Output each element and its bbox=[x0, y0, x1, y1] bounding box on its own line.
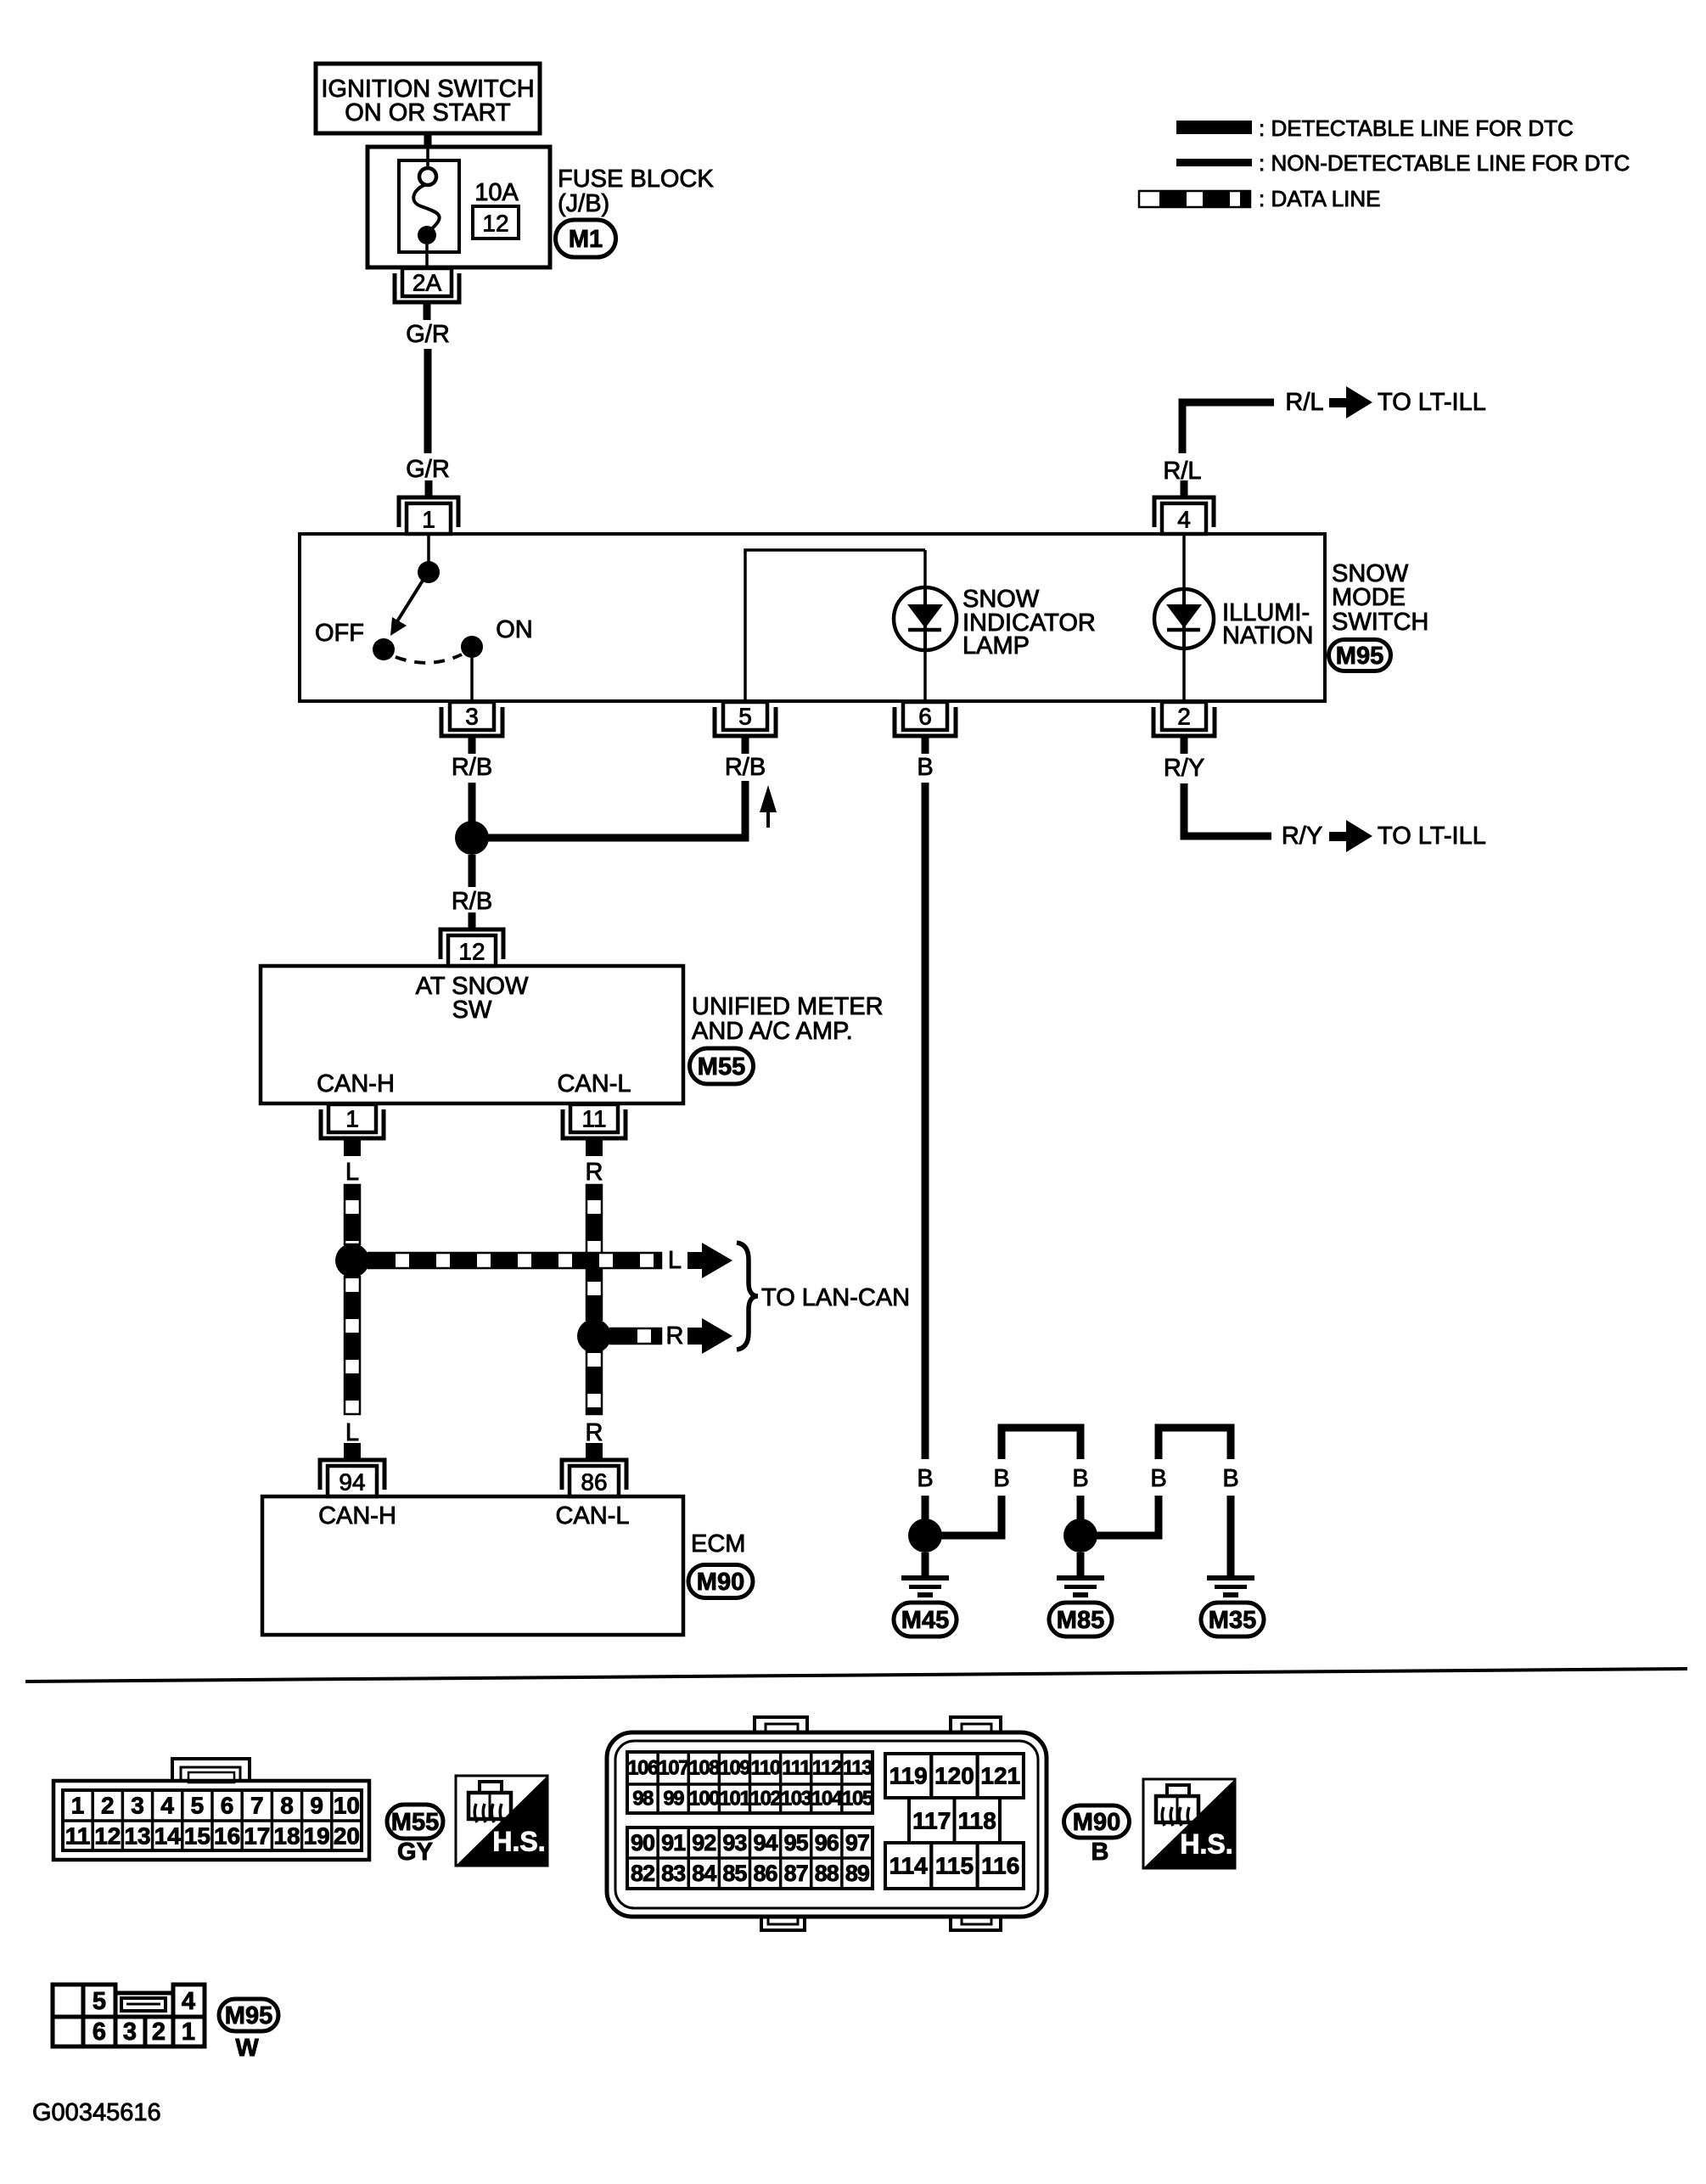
svg-text:M90: M90 bbox=[1073, 1809, 1120, 1836]
svg-text:3: 3 bbox=[123, 2018, 137, 2046]
svg-text:M95: M95 bbox=[225, 2002, 272, 2030]
wire R/B junction to pin 5 bbox=[487, 781, 745, 838]
svg-text:M55: M55 bbox=[698, 1053, 745, 1081]
label snow mode switch bbox=[1332, 560, 1428, 636]
connector M55 oval bottom bbox=[387, 1805, 443, 1839]
svg-text:6: 6 bbox=[918, 704, 932, 730]
legend data line sample bbox=[1139, 191, 1250, 207]
svg-text:GY: GY bbox=[397, 1839, 433, 1866]
ECM box bbox=[262, 1496, 683, 1635]
svg-text:113: 113 bbox=[843, 1757, 873, 1780]
svg-text:G/R: G/R bbox=[406, 321, 450, 348]
svg-text:106: 106 bbox=[627, 1757, 659, 1780]
switch pivot from pin 1 bbox=[418, 536, 440, 583]
svg-text:R/Y: R/Y bbox=[1282, 823, 1322, 850]
ground symbol M35 bbox=[1207, 1575, 1254, 1597]
svg-text:2: 2 bbox=[1177, 704, 1191, 730]
svg-text:CAN-H: CAN-H bbox=[318, 1502, 396, 1530]
svg-text:TO LT-ILL: TO LT-ILL bbox=[1378, 823, 1486, 850]
wire ON contact to pin 3 bbox=[470, 647, 474, 702]
ground symbol M45 bbox=[901, 1575, 949, 1597]
svg-text:ECM: ECM bbox=[691, 1530, 745, 1558]
svg-text:90: 90 bbox=[631, 1830, 654, 1856]
label OFF bbox=[315, 620, 364, 647]
wire ignition to fuse block bbox=[424, 133, 432, 148]
switch ON contact bbox=[461, 636, 483, 658]
wire label R/B pin 5 bbox=[725, 754, 766, 781]
svg-text:93: 93 bbox=[722, 1830, 747, 1856]
svg-text:108: 108 bbox=[689, 1757, 721, 1780]
svg-text:9: 9 bbox=[310, 1793, 323, 1819]
svg-text:117: 117 bbox=[912, 1808, 951, 1834]
svg-text:1: 1 bbox=[345, 1106, 359, 1132]
connector pin 6 bbox=[895, 702, 956, 754]
data wire CAN-L upper bbox=[586, 1185, 602, 1320]
svg-text:17: 17 bbox=[244, 1823, 270, 1850]
wire B pin 6 down bbox=[922, 783, 929, 1459]
svg-text:101: 101 bbox=[720, 1788, 751, 1811]
connector pin 2A bbox=[395, 268, 459, 320]
signal direction arrow up bbox=[760, 785, 777, 828]
svg-text:121: 121 bbox=[980, 1763, 1020, 1789]
svg-text:109: 109 bbox=[720, 1757, 751, 1780]
data wire L to LAN-CAN bbox=[368, 1253, 661, 1268]
svg-text:11: 11 bbox=[65, 1823, 91, 1850]
svg-text:MODE: MODE bbox=[1332, 584, 1406, 611]
svg-text:88: 88 bbox=[815, 1861, 839, 1886]
brace TO LAN-CAN bbox=[737, 1243, 758, 1350]
wire label R upper bbox=[586, 1159, 603, 1186]
junction ground M45 bbox=[908, 1519, 942, 1552]
label illumination bbox=[1222, 599, 1313, 649]
wire label B ground 1 bbox=[917, 1465, 933, 1492]
svg-text:16: 16 bbox=[214, 1823, 240, 1850]
svg-text:R/B: R/B bbox=[725, 754, 766, 781]
svg-text:118: 118 bbox=[958, 1808, 996, 1834]
svg-text:M35: M35 bbox=[1209, 1607, 1256, 1634]
label ECM bbox=[691, 1530, 745, 1558]
connector M95 oval bottom bbox=[219, 1999, 278, 2031]
connector pin 1 meter CAN-H bbox=[321, 1104, 384, 1156]
svg-text:7: 7 bbox=[250, 1793, 264, 1819]
wire label R/L right bbox=[1285, 389, 1323, 416]
switch OFF contact bbox=[373, 638, 395, 660]
svg-text:107: 107 bbox=[658, 1757, 689, 1780]
wire R/B pin3 down to junction bbox=[469, 783, 476, 824]
svg-text:8: 8 bbox=[280, 1793, 294, 1819]
legend data line text bbox=[1259, 186, 1381, 211]
junction ground M85 bbox=[1063, 1519, 1097, 1552]
label AT SNOW SW bbox=[416, 973, 529, 1024]
svg-text:NATION: NATION bbox=[1222, 622, 1313, 649]
label TO LT-ILL lower bbox=[1378, 823, 1486, 850]
svg-text:120: 120 bbox=[934, 1763, 974, 1789]
svg-text:R: R bbox=[666, 1322, 684, 1350]
wire to ground M35 bbox=[1227, 1496, 1235, 1575]
wire label R/L at pin 4 bbox=[1163, 458, 1201, 485]
H.S. logo left bbox=[456, 1776, 547, 1866]
wire label L upper bbox=[345, 1159, 359, 1186]
svg-text:114: 114 bbox=[889, 1853, 929, 1879]
svg-text:119: 119 bbox=[889, 1763, 928, 1789]
svg-text:15: 15 bbox=[184, 1823, 210, 1850]
svg-text:85: 85 bbox=[722, 1861, 747, 1886]
wire bridge leg 2 to junction M85 bbox=[1084, 1496, 1159, 1536]
svg-text:B: B bbox=[993, 1465, 1009, 1492]
svg-text:14: 14 bbox=[154, 1823, 182, 1850]
connector pin 4 snow mode switch bbox=[1154, 480, 1214, 534]
wire label B ground 3 bbox=[1072, 1465, 1088, 1492]
wire label R branch bbox=[666, 1322, 684, 1350]
svg-text:B: B bbox=[1092, 1839, 1109, 1866]
svg-text:1: 1 bbox=[422, 507, 435, 533]
svg-text:3: 3 bbox=[131, 1793, 144, 1819]
svg-text:5: 5 bbox=[93, 1988, 106, 2015]
connector M95 oval at switch bbox=[1329, 640, 1391, 671]
wire R/B junction down bbox=[469, 855, 476, 887]
legend detectable line text bbox=[1259, 115, 1574, 141]
connector pin 12 meter bbox=[441, 912, 503, 966]
svg-text:103: 103 bbox=[781, 1788, 812, 1811]
svg-text:94: 94 bbox=[339, 1469, 365, 1496]
ground symbol M85 bbox=[1057, 1575, 1104, 1597]
connector pin 86 ECM CAN-L bbox=[562, 1443, 626, 1496]
junction CAN-L bbox=[577, 1319, 611, 1353]
data wire CAN-L lower bbox=[586, 1351, 602, 1414]
svg-text:FUSE BLOCK: FUSE BLOCK bbox=[558, 166, 714, 193]
svg-text:R/Y: R/Y bbox=[1164, 755, 1204, 782]
svg-text:B: B bbox=[917, 1465, 933, 1492]
wire bridge leg to junction M85 bbox=[1077, 1496, 1085, 1536]
connector pin 11 meter CAN-L bbox=[563, 1104, 626, 1156]
svg-text:5: 5 bbox=[738, 704, 752, 730]
svg-text:M55: M55 bbox=[391, 1809, 439, 1836]
illumination LED bbox=[1154, 589, 1214, 648]
data wire CAN-H lower bbox=[345, 1277, 360, 1414]
svg-text:96: 96 bbox=[815, 1830, 839, 1856]
connector M90 oval bottom bbox=[1064, 1805, 1130, 1838]
unified meter and ac amp box bbox=[261, 966, 683, 1103]
label CAN-L ECM bbox=[555, 1502, 629, 1530]
svg-text:100: 100 bbox=[689, 1788, 721, 1811]
svg-text:4: 4 bbox=[182, 1988, 195, 2015]
svg-text:W: W bbox=[235, 2035, 259, 2062]
ground M85 oval bbox=[1049, 1603, 1112, 1637]
svg-text:M1: M1 bbox=[569, 226, 603, 253]
svg-text:ON OR START: ON OR START bbox=[345, 99, 511, 126]
wire label R/B pin 3 bbox=[452, 754, 492, 781]
svg-text:12: 12 bbox=[94, 1823, 121, 1850]
svg-text:B: B bbox=[1072, 1465, 1088, 1492]
svg-text:104: 104 bbox=[811, 1788, 844, 1811]
svg-text:110: 110 bbox=[750, 1757, 780, 1780]
svg-text:UNIFIED METER: UNIFIED METER bbox=[692, 993, 884, 1020]
wire label B ground 4 bbox=[1150, 1465, 1166, 1492]
svg-text:AND A/C AMP.: AND A/C AMP. bbox=[692, 1018, 853, 1045]
wire R/Y corner to LT-ILL bbox=[1184, 783, 1271, 836]
connector M90 oval at ECM bbox=[688, 1565, 753, 1598]
svg-text:R: R bbox=[586, 1419, 603, 1446]
wire label R lower bbox=[586, 1419, 603, 1446]
svg-text:98: 98 bbox=[632, 1788, 654, 1811]
svg-text:10A: 10A bbox=[474, 179, 519, 206]
label ON bbox=[496, 616, 533, 643]
svg-text:OFF: OFF bbox=[315, 620, 364, 647]
fuse 10A 12 bbox=[413, 147, 439, 267]
svg-text:20: 20 bbox=[334, 1823, 360, 1850]
data wire R to LAN-CAN bbox=[610, 1328, 661, 1344]
ignition switch power source box bbox=[316, 64, 540, 133]
connector pin 2 bbox=[1153, 702, 1215, 754]
svg-text:L: L bbox=[668, 1247, 682, 1274]
wire B to junction M45 bbox=[922, 1496, 929, 1536]
svg-text:L: L bbox=[345, 1159, 359, 1186]
svg-text:B: B bbox=[1222, 1465, 1238, 1492]
svg-text:5: 5 bbox=[191, 1793, 205, 1819]
label TO LAN-CAN bbox=[761, 1284, 910, 1311]
svg-text:2A: 2A bbox=[412, 270, 442, 296]
connector face M90 bbox=[607, 1717, 1047, 1930]
svg-text:L: L bbox=[345, 1419, 359, 1446]
label W color bbox=[235, 2035, 259, 2062]
junction CAN-H bbox=[335, 1244, 369, 1277]
svg-text:H.S.: H.S. bbox=[492, 1826, 545, 1856]
svg-text:SW: SW bbox=[452, 997, 492, 1024]
svg-text:SWITCH: SWITCH bbox=[1332, 609, 1428, 636]
label CAN-H meter bbox=[317, 1070, 395, 1098]
svg-text:97: 97 bbox=[845, 1830, 869, 1856]
svg-text:LAMP: LAMP bbox=[962, 632, 1030, 660]
svg-text:4: 4 bbox=[160, 1793, 174, 1819]
legend detectable line sample bbox=[1176, 121, 1252, 134]
svg-text:B: B bbox=[1150, 1465, 1166, 1492]
svg-text:2: 2 bbox=[101, 1793, 115, 1819]
fuse value 10A bbox=[474, 179, 519, 206]
svg-text:R: R bbox=[586, 1159, 603, 1186]
svg-text:18: 18 bbox=[273, 1823, 300, 1850]
svg-text:3: 3 bbox=[465, 704, 479, 730]
wire label B ground 2 bbox=[993, 1465, 1009, 1492]
arrow to LT-ILL lower bbox=[1329, 820, 1372, 852]
svg-text:91: 91 bbox=[661, 1830, 686, 1856]
arrow R to LAN-CAN bbox=[687, 1318, 732, 1354]
ground M45 oval bbox=[894, 1603, 957, 1637]
ground stub M45 bbox=[922, 1552, 929, 1575]
label GY bbox=[397, 1839, 433, 1866]
svg-text:86: 86 bbox=[754, 1861, 778, 1886]
switch arm arrow bbox=[390, 574, 427, 636]
svg-text:83: 83 bbox=[661, 1861, 686, 1886]
snow mode switch box bbox=[300, 534, 1325, 701]
wire R/L corner to LT-ILL bbox=[1182, 402, 1274, 453]
svg-text:19: 19 bbox=[304, 1823, 330, 1850]
svg-text:4: 4 bbox=[1177, 507, 1191, 533]
svg-text:: DATA LINE: : DATA LINE bbox=[1259, 186, 1381, 211]
data wire CAN-H upper bbox=[345, 1185, 360, 1244]
svg-text:10: 10 bbox=[334, 1793, 360, 1819]
wire label B pin 6 bbox=[917, 754, 933, 781]
svg-text:G/R: G/R bbox=[406, 456, 450, 483]
svg-text:94: 94 bbox=[754, 1830, 778, 1856]
junction R/B bbox=[455, 821, 489, 855]
svg-text:6: 6 bbox=[93, 2018, 106, 2046]
svg-text:111: 111 bbox=[782, 1757, 811, 1780]
svg-text:M85: M85 bbox=[1057, 1607, 1104, 1634]
svg-text:87: 87 bbox=[784, 1861, 808, 1886]
svg-text:102: 102 bbox=[750, 1788, 782, 1811]
fuse number 12 box bbox=[473, 206, 519, 239]
svg-text:M45: M45 bbox=[901, 1607, 949, 1634]
separator line bbox=[25, 1669, 1687, 1682]
label CAN-H ECM bbox=[318, 1502, 396, 1530]
svg-text:92: 92 bbox=[692, 1830, 716, 1856]
connector face M95 bbox=[53, 1985, 205, 2046]
svg-text:TO LAN-CAN: TO LAN-CAN bbox=[761, 1284, 910, 1311]
label snow indicator lamp bbox=[962, 586, 1096, 660]
wire label L branch bbox=[668, 1247, 682, 1274]
svg-text:G00345616: G00345616 bbox=[32, 2099, 161, 2126]
label TO LT-ILL upper bbox=[1378, 389, 1486, 416]
wire label B ground 5 bbox=[1222, 1465, 1238, 1492]
svg-text:2: 2 bbox=[152, 2018, 166, 2046]
ground bridge wire 2 bbox=[1159, 1428, 1231, 1459]
label B color bbox=[1092, 1839, 1109, 1866]
fuse block label bbox=[558, 166, 714, 217]
svg-text:12: 12 bbox=[482, 211, 508, 237]
ground stub M85 bbox=[1077, 1552, 1085, 1575]
legend non-detectable line sample bbox=[1176, 159, 1252, 166]
svg-text:(J/B): (J/B) bbox=[558, 190, 609, 217]
svg-text:95: 95 bbox=[784, 1830, 809, 1856]
wire label R/Y right bbox=[1282, 823, 1322, 850]
svg-text:R/B: R/B bbox=[452, 754, 492, 781]
svg-text:CAN-H: CAN-H bbox=[317, 1070, 395, 1098]
internal wire pin 5 to snow indicator lamp bbox=[745, 550, 925, 699]
svg-text:: NON-DETECTABLE LINE FOR DTC: : NON-DETECTABLE LINE FOR DTC bbox=[1259, 150, 1630, 176]
svg-text:CAN-L: CAN-L bbox=[557, 1070, 631, 1098]
svg-text:105: 105 bbox=[842, 1788, 873, 1811]
svg-text:115: 115 bbox=[935, 1853, 974, 1879]
svg-text:12: 12 bbox=[458, 939, 485, 965]
connector pin 1 snow mode switch bbox=[399, 480, 458, 534]
svg-text:86: 86 bbox=[581, 1469, 607, 1496]
switch dashed arc bbox=[396, 654, 462, 663]
fuse block box bbox=[368, 147, 550, 267]
svg-text:6: 6 bbox=[221, 1793, 234, 1819]
snow indicator lamp wire bbox=[923, 550, 927, 699]
svg-text:112: 112 bbox=[812, 1757, 842, 1780]
svg-text:82: 82 bbox=[631, 1861, 654, 1886]
H.S. logo right bbox=[1143, 1779, 1235, 1868]
svg-text:ON: ON bbox=[496, 616, 533, 643]
connector M55 oval bbox=[690, 1048, 754, 1084]
svg-text:99: 99 bbox=[663, 1788, 684, 1811]
svg-text:B: B bbox=[917, 754, 933, 781]
arrow to LT-ILL upper bbox=[1329, 386, 1372, 418]
svg-text:TO LT-ILL: TO LT-ILL bbox=[1378, 389, 1486, 416]
svg-text:H.S.: H.S. bbox=[1180, 1829, 1232, 1860]
illumination lamp wire bbox=[1182, 534, 1186, 699]
svg-text:M90: M90 bbox=[697, 1569, 744, 1596]
wire label G/R upper bbox=[406, 321, 450, 348]
wire label R/B lower bbox=[452, 888, 492, 915]
figure number G00345616 bbox=[32, 2099, 161, 2126]
svg-text:13: 13 bbox=[124, 1823, 150, 1850]
connector M1 oval bbox=[556, 220, 616, 257]
ground M35 oval bbox=[1201, 1603, 1264, 1637]
connector pin 94 ECM CAN-H bbox=[320, 1443, 384, 1496]
connector pin 3 bbox=[441, 702, 502, 754]
svg-text:: DETECTABLE LINE FOR DTC: : DETECTABLE LINE FOR DTC bbox=[1259, 115, 1574, 141]
svg-text:89: 89 bbox=[845, 1861, 870, 1886]
svg-text:11: 11 bbox=[581, 1106, 606, 1132]
label unified meter and ac amp bbox=[692, 993, 884, 1045]
svg-text:M95: M95 bbox=[1336, 643, 1383, 670]
wire label R/Y pin 2 bbox=[1164, 755, 1204, 782]
svg-text:CAN-L: CAN-L bbox=[555, 1502, 629, 1530]
svg-text:84: 84 bbox=[692, 1861, 716, 1886]
legend non-detectable line text bbox=[1259, 150, 1630, 176]
ground bridge wire 1 bbox=[1002, 1428, 1080, 1459]
wire label G/R lower bbox=[406, 456, 450, 483]
svg-text:R/L: R/L bbox=[1285, 389, 1323, 416]
label CAN-L meter bbox=[557, 1070, 631, 1098]
wire bridge leg to junction M45 bbox=[929, 1496, 1002, 1536]
wire G/R vertical bbox=[424, 349, 432, 453]
svg-text:1: 1 bbox=[71, 1793, 85, 1819]
arrow L to LAN-CAN bbox=[687, 1243, 732, 1278]
svg-text:1: 1 bbox=[182, 2018, 195, 2046]
connector pin 5 bbox=[715, 702, 776, 754]
svg-text:R/B: R/B bbox=[452, 888, 492, 915]
connector face M55 bbox=[53, 1759, 369, 1860]
snow indicator lamp LED bbox=[894, 587, 957, 650]
wire label L lower bbox=[345, 1419, 359, 1446]
svg-text:116: 116 bbox=[981, 1853, 1019, 1879]
